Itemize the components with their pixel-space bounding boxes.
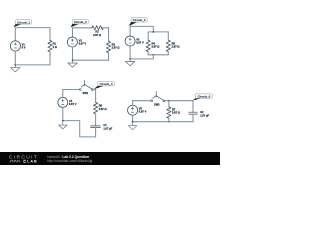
junction E left xyxy=(132,121,134,123)
wire branch R4 bottom xyxy=(147,52,149,55)
svg-text:Circuit_2: Circuit_2 xyxy=(74,20,87,24)
wire bottom E xyxy=(133,121,193,123)
wire right-top A xyxy=(49,28,51,41)
wire branch R4 top xyxy=(147,32,149,40)
wire mid D xyxy=(95,114,97,126)
wire source-bottom D xyxy=(62,107,64,120)
svg-text:5.67 Ω: 5.67 Ω xyxy=(99,107,107,111)
voltage source V2 xyxy=(67,37,77,47)
svg-text:5.67 V: 5.67 V xyxy=(139,110,147,114)
wire top-left D xyxy=(63,89,80,91)
flag Circuit_5 xyxy=(192,94,212,101)
junction A xyxy=(15,64,17,66)
wire top-right B xyxy=(102,27,108,29)
wire right-bottom E xyxy=(192,114,194,122)
svg-text:5 V: 5 V xyxy=(22,45,26,49)
wire left-bottom C xyxy=(129,46,131,59)
svg-text:5.67 V: 5.67 V xyxy=(69,102,77,106)
svg-text:1.07 µF: 1.07 µF xyxy=(103,126,112,130)
CircuitLab logo xyxy=(0,152,46,165)
voltage source V1 xyxy=(10,41,20,51)
junction C top xyxy=(153,31,155,33)
wire left-bottom B xyxy=(72,47,74,60)
wire right-top E xyxy=(192,101,194,113)
junction E top xyxy=(168,100,170,102)
wire top A xyxy=(15,27,50,29)
wire right-bottom A xyxy=(49,52,51,65)
voltage source V5 xyxy=(128,105,138,115)
wire left-top B xyxy=(72,28,74,37)
junction C left xyxy=(129,58,131,60)
wire top-right D xyxy=(93,89,95,91)
svg-text:Circuit_1: Circuit_1 xyxy=(17,20,30,24)
svg-text:SW2: SW2 xyxy=(154,102,160,106)
wire left-top A xyxy=(14,28,16,41)
resistor R5 xyxy=(166,40,170,51)
capacitor C1 xyxy=(91,126,101,128)
svg-text:SW1: SW1 xyxy=(83,91,89,95)
wire branch R5 top xyxy=(167,32,169,40)
wire branch R7 top xyxy=(168,101,170,107)
junction B xyxy=(72,59,74,61)
voltage source V3 xyxy=(125,36,135,46)
resistor R6 xyxy=(94,102,98,113)
resistor R3 xyxy=(106,41,110,52)
footer bar xyxy=(0,152,220,165)
svg-text:1 Ω: 1 Ω xyxy=(53,45,57,49)
wire bottom B xyxy=(73,59,109,61)
bus bottom C xyxy=(148,54,168,56)
svg-text:5.67 V: 5.67 V xyxy=(79,42,87,46)
wire source-top D xyxy=(62,90,64,98)
wire branch R7 bottom xyxy=(168,118,170,121)
wire top-left B xyxy=(73,27,92,29)
svg-text:C2: C2 xyxy=(200,110,204,114)
svg-text:1.07 µF: 1.07 µF xyxy=(200,113,209,117)
junction E bottom xyxy=(168,121,170,123)
flag Circuit_2 xyxy=(71,20,89,28)
flag Circuit_4 xyxy=(94,82,115,90)
ground A xyxy=(11,65,20,72)
wire top-left E xyxy=(133,100,151,102)
flag Circuit_1 xyxy=(13,20,31,27)
bus top C xyxy=(148,31,168,33)
junction C bottom xyxy=(153,54,155,56)
svg-text:Circuit_4: Circuit_4 xyxy=(100,82,113,86)
wire right-top B xyxy=(108,28,110,42)
wire source-top E xyxy=(132,101,134,106)
wire left-top C xyxy=(129,26,131,36)
svg-text:5.67 Ω: 5.67 Ω xyxy=(172,110,180,114)
switch SW2 xyxy=(151,92,165,102)
svg-text:Circuit_3: Circuit_3 xyxy=(133,18,146,22)
svg-text:Circuit_5: Circuit_5 xyxy=(197,95,210,99)
wire jog D xyxy=(63,121,96,137)
wire bottom A xyxy=(15,64,50,66)
wire top C xyxy=(130,26,153,32)
wire source-bottom E xyxy=(132,115,134,122)
voltage source V4 xyxy=(58,97,68,107)
svg-text:2.87 Ω: 2.87 Ω xyxy=(112,46,120,50)
resistor R7 xyxy=(167,107,171,118)
junction D xyxy=(62,120,64,122)
wire return C xyxy=(130,55,153,59)
wire branch R5 bottom xyxy=(167,52,169,55)
wire right-bottom B xyxy=(108,53,110,61)
ground E xyxy=(128,122,136,130)
wire right-top D xyxy=(95,90,97,103)
ground D xyxy=(59,121,67,129)
resistor R2 xyxy=(92,26,103,30)
capacitor C2 xyxy=(189,112,198,114)
wire below cap D xyxy=(95,128,97,137)
switch SW1 xyxy=(79,80,93,90)
svg-text:2.87 Ω: 2.87 Ω xyxy=(172,45,180,49)
flag Circuit_3 xyxy=(129,18,147,26)
ground B xyxy=(68,60,77,67)
svg-text:2.87 Ω: 2.87 Ω xyxy=(152,45,160,49)
resistor R4 xyxy=(146,40,150,51)
resistor R1 xyxy=(48,40,52,51)
ground C xyxy=(125,59,134,66)
wire top-mid E xyxy=(165,100,193,102)
wire left-bottom A xyxy=(14,51,16,65)
svg-text:5.67 V: 5.67 V xyxy=(136,41,144,45)
svg-text:2.87 Ω: 2.87 Ω xyxy=(93,33,101,37)
